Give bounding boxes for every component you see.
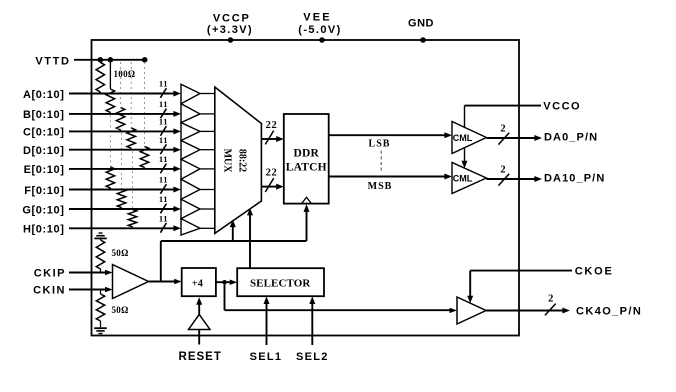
svg-text:MSB: MSB	[368, 181, 393, 192]
bus width slash 11 on C line	[160, 126, 166, 136]
wire buffer H to MUX	[200, 227, 215, 229]
input buffer triangle D	[181, 141, 200, 160]
input buffer triangle G	[181, 199, 200, 218]
wire clock buffer output to divider	[149, 281, 176, 283]
wire selector to MUX select arrow	[249, 214, 251, 268]
resistor RG (G pull-up) with dashed feed	[121, 133, 123, 189]
svg-text:G[0:10]: G[0:10]	[22, 204, 64, 216]
ground below bottom 50ohm resistor	[94, 327, 107, 329]
svg-text:RESET: RESET	[179, 351, 222, 363]
wire DA10 output	[486, 178, 536, 180]
clock input buffer triangle	[113, 265, 149, 299]
bus width slash 2 on DA0	[498, 133, 509, 145]
divider +4 block	[182, 268, 216, 296]
svg-text:CKOE: CKOE	[575, 266, 614, 278]
svg-text:LSB: LSB	[369, 139, 391, 150]
wire C input line	[69, 130, 174, 132]
svg-text:2: 2	[500, 164, 506, 175]
svg-text:11: 11	[159, 154, 168, 164]
bus width slash 11 on G line	[160, 204, 166, 214]
svg-text:11: 11	[159, 194, 168, 204]
junction dot VTTD rail end	[142, 57, 148, 63]
clock output buffer triangle	[457, 297, 486, 324]
wire G input line	[69, 208, 174, 210]
wire divided clock to output buffer	[224, 282, 226, 310]
svg-text:22: 22	[266, 168, 278, 179]
input buffer triangle F	[181, 179, 200, 199]
wire B input line	[69, 113, 174, 115]
svg-text:DA10_P/N: DA10_P/N	[544, 173, 605, 185]
junction dot VTTD-A	[98, 57, 104, 63]
power pin VCCP label	[207, 13, 253, 36]
resistor RD (D pull-up) with dashed feed	[130, 62, 132, 128]
wire E input line	[69, 168, 174, 170]
wire clock to MUX arrow	[232, 226, 234, 241]
wire MUX to DDR latch bus 2	[261, 186, 276, 188]
svg-text:11: 11	[159, 213, 168, 223]
power pin VEE dot	[319, 37, 325, 43]
bus width slash 11 on A line	[160, 88, 166, 98]
svg-text:11: 11	[159, 99, 168, 109]
resistor RH (H pull-up) with dashed feed	[132, 151, 134, 209]
bus continuation dashed mark	[380, 151, 382, 173]
bus width slash 11 on B line	[160, 109, 166, 119]
svg-text:C[0:10]: C[0:10]	[23, 127, 65, 139]
svg-text:VCCO: VCCO	[543, 101, 581, 113]
svg-text:CML: CML	[453, 133, 473, 143]
wire CK4O output	[486, 310, 564, 312]
wire A input line	[69, 93, 174, 95]
input buffer triangle B	[181, 104, 200, 123]
DDR LATCH label	[286, 148, 327, 174]
wire buffer C to MUX	[200, 130, 215, 132]
wire VCCO feed	[465, 105, 542, 107]
bus width slash 11 on D line	[160, 144, 166, 154]
svg-text:50Ω: 50Ω	[112, 305, 129, 315]
resistor 50ohm bottom	[100, 290, 102, 295]
bus width slash 11 on F line	[160, 184, 166, 194]
svg-text:2: 2	[548, 294, 554, 305]
input buffer triangle H	[181, 219, 200, 235]
svg-text:DA0_P/N: DA0_P/N	[544, 132, 598, 144]
svg-text:11: 11	[159, 135, 168, 145]
svg-text:MUX: MUX	[222, 149, 233, 174]
power pin VCCP dot	[228, 37, 234, 43]
svg-text:11: 11	[159, 117, 168, 127]
input buffer triangle E	[181, 159, 200, 179]
input buffer triangle C	[181, 123, 200, 141]
svg-text:CKIN: CKIN	[33, 285, 66, 297]
svg-text:LATCH: LATCH	[286, 161, 327, 173]
wire RESET line	[198, 330, 200, 345]
MUX 88:22 trapezoid	[215, 87, 262, 233]
power pin VEE label	[298, 11, 341, 36]
resistor RC (C pull-up) with dashed feed	[120, 62, 122, 108]
svg-text:B[0:10]: B[0:10]	[23, 109, 65, 121]
svg-text:CML: CML	[453, 174, 473, 184]
resistor RE (E pull-up) with dashed feed	[144, 62, 146, 147]
bus width slash 11 on E line	[160, 164, 166, 174]
svg-text:SEL2: SEL2	[296, 351, 329, 363]
svg-text:SEL1: SEL1	[250, 351, 283, 363]
svg-text:CK4O_P/N: CK4O_P/N	[576, 306, 642, 318]
wire LSB bus DDR to CML1	[329, 134, 445, 136]
svg-text:100Ω: 100Ω	[114, 69, 136, 79]
bus width slash 2 on DA10	[498, 174, 509, 186]
wire DA0 output	[486, 137, 536, 139]
svg-text:E[0:10]: E[0:10]	[24, 164, 65, 176]
svg-text:F[0:10]: F[0:10]	[24, 185, 64, 197]
reset buffer triangle	[189, 314, 211, 329]
svg-text:D[0:10]: D[0:10]	[23, 145, 65, 157]
wire CKIN line	[69, 289, 106, 291]
wire MSB bus DDR to CML2	[329, 176, 445, 178]
bus width slash 11 on H line	[160, 223, 166, 233]
resistor RA (A pull-up)	[96, 62, 104, 92]
svg-text:CKIP: CKIP	[34, 268, 66, 280]
svg-text:VEE: VEE	[303, 11, 332, 23]
svg-text:A[0:10]: A[0:10]	[23, 89, 65, 101]
svg-text:(+3.3V): (+3.3V)	[207, 24, 253, 36]
svg-text:88:22: 88:22	[237, 149, 248, 172]
resistor RF (F pull-up) with dashed feed	[109, 115, 111, 167]
wire buffer E to MUX	[200, 168, 215, 170]
wire CKIP line	[69, 272, 106, 274]
svg-text:11: 11	[159, 79, 168, 89]
wire D input line	[69, 149, 174, 151]
inverted ground above top 50ohm resistor	[99, 232, 103, 234]
wire CML1 to CML2 cascade arrow	[464, 148, 466, 163]
svg-text:VCCP: VCCP	[213, 13, 251, 25]
bus width slash 2 on CK4O	[545, 304, 556, 316]
svg-text:2: 2	[500, 123, 506, 134]
wire H input line	[69, 227, 174, 229]
svg-text:VTTD: VTTD	[35, 56, 70, 68]
bus width slash 22 upper	[265, 131, 273, 145]
junction dot VTTD-B	[108, 57, 114, 63]
wire SEL2 line	[311, 302, 313, 345]
resistor 50ohm top	[96, 240, 104, 269]
svg-text:+4: +4	[192, 279, 203, 290]
wire buffer F to MUX	[200, 189, 215, 191]
wire clock rise to distribution	[160, 241, 162, 282]
CML output buffer U2	[452, 163, 486, 194]
wire reset buffer to divider arrow	[198, 302, 200, 314]
DDR LATCH block	[284, 114, 329, 204]
wire buffer G to MUX	[200, 208, 215, 210]
bus width slash 22 lower	[265, 178, 273, 192]
svg-text:(-5.0V): (-5.0V)	[298, 24, 341, 36]
svg-text:22: 22	[266, 120, 278, 131]
resistor RB (B pull-up)	[109, 60, 111, 89]
input buffer triangle A	[181, 84, 200, 103]
svg-text:GND: GND	[408, 18, 434, 30]
wire divider to selector	[216, 281, 231, 283]
wire buffer D to MUX	[200, 149, 215, 151]
svg-text:DDR: DDR	[294, 148, 320, 160]
SELECTOR block	[237, 268, 324, 296]
wire clock to DDR latch arrow	[306, 210, 308, 241]
wire VTTD rail	[74, 59, 145, 61]
svg-text:H[0:10]: H[0:10]	[23, 224, 65, 236]
DDR latch clock wedge	[302, 197, 312, 203]
wire buffer A to MUX	[200, 93, 215, 95]
svg-text:50Ω: 50Ω	[112, 248, 129, 258]
wire CKOE net	[470, 270, 572, 272]
wire buffer B to MUX	[200, 113, 215, 115]
outer chip boundary box	[92, 40, 520, 336]
CML output buffer U1	[452, 122, 486, 154]
junction dot divider output	[222, 280, 226, 284]
wire MUX to DDR latch bus 1	[261, 138, 276, 140]
svg-text:11: 11	[159, 175, 168, 185]
svg-text:SELECTOR: SELECTOR	[250, 277, 311, 289]
wire SEL1 line	[266, 302, 268, 345]
wire F input line	[69, 189, 174, 191]
power pin GND dot	[420, 37, 426, 43]
